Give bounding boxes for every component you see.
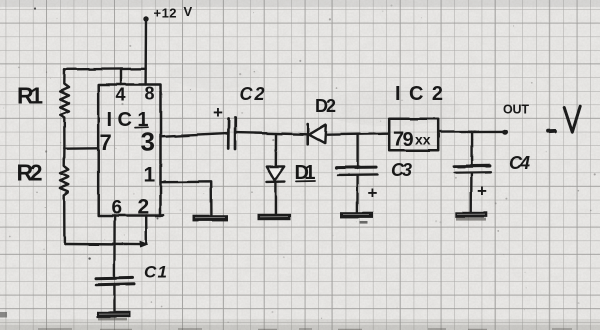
svg-text:+: + bbox=[213, 103, 223, 122]
svg-text:9: 9 bbox=[403, 129, 414, 151]
svg-text:4: 4 bbox=[116, 85, 126, 105]
svg-text:+: + bbox=[368, 184, 378, 203]
underline D1 bbox=[296, 180, 315, 182]
svg-text:3: 3 bbox=[141, 127, 155, 157]
IC1 box (555) bbox=[98, 85, 160, 216]
svg-text:R2: R2 bbox=[17, 160, 43, 186]
svg-text:2: 2 bbox=[138, 196, 150, 219]
svg-text:C4: C4 bbox=[509, 153, 530, 173]
gray scribble under C1 ground bbox=[98, 318, 127, 321]
wire pin 1 bbox=[161, 182, 212, 215]
wire C1 to ground bbox=[113, 285, 115, 311]
capacitor C3 bbox=[336, 166, 376, 170]
wire D2 to IC2 bbox=[327, 133, 390, 134]
wire pin 3 output bbox=[161, 134, 228, 137]
node +12V dot bbox=[143, 16, 148, 21]
wire C4 to ground bbox=[470, 173, 473, 212]
svg-text:+12: +12 bbox=[154, 6, 177, 21]
junction arrow mark pins 2/6 wire bbox=[140, 242, 148, 248]
wire bottom horizontal (R2 to pins 6,2) bbox=[64, 243, 141, 246]
svg-text:6: 6 bbox=[112, 198, 123, 219]
wire C2 to D2 bbox=[236, 133, 307, 135]
svg-text:8: 8 bbox=[145, 84, 155, 104]
paper shading top edge bbox=[0, 0, 600, 7]
scan edge dashes along bottom bbox=[38, 328, 572, 330]
label V of -V bbox=[564, 106, 580, 132]
wire C3 to ground bbox=[356, 176, 359, 212]
pen dot top-left bbox=[34, 7, 36, 9]
svg-text:+: + bbox=[477, 182, 487, 201]
wire pin 4 drop bbox=[120, 69, 122, 85]
diode D1 bbox=[267, 166, 284, 180]
resistor R1 bbox=[60, 69, 69, 148]
stray mark bottom-left corner bbox=[0, 312, 7, 318]
ground (below C1) bbox=[97, 311, 132, 317]
svg-text:D2: D2 bbox=[315, 96, 336, 116]
ground (below C3) bbox=[341, 212, 374, 218]
wire C4 drop bbox=[470, 132, 472, 165]
svg-text:xx: xx bbox=[415, 132, 431, 148]
ground (below D1) bbox=[258, 214, 291, 220]
paper smudge above C2 bbox=[170, 61, 260, 89]
ground (below C4) bbox=[455, 212, 488, 218]
ground texture scribbles bbox=[99, 214, 485, 314]
wire pin 7 bbox=[64, 147, 98, 150]
svg-text:C1: C1 bbox=[144, 263, 167, 282]
wire pin 2 drop bbox=[145, 216, 148, 244]
svg-text:C2: C2 bbox=[240, 84, 265, 104]
svg-text:R1: R1 bbox=[17, 83, 43, 109]
capacitor C4 bbox=[454, 164, 490, 168]
svg-text:1: 1 bbox=[144, 164, 156, 187]
ground (below pin 1) bbox=[193, 215, 229, 221]
capacitor C1 bbox=[97, 276, 134, 280]
pen dot left of C1 bbox=[88, 257, 90, 259]
wire top horizontal to R1 bbox=[65, 68, 146, 71]
svg-text:C3: C3 bbox=[391, 160, 412, 180]
IC1 bottom edge overshoot bbox=[161, 214, 165, 217]
wire D1 drop bbox=[275, 134, 278, 166]
wire IC2 out to OUT bbox=[438, 130, 504, 133]
minus sign of -V bbox=[548, 129, 556, 133]
paper shading bottom edge bbox=[0, 319, 600, 330]
capacitor C2 bbox=[227, 119, 230, 149]
pen dot right of pin2 bbox=[157, 218, 159, 220]
wire +12V vertical to pin 8 bbox=[144, 19, 147, 85]
diode D2 bbox=[306, 125, 309, 145]
resistor R2 bbox=[60, 149, 69, 244]
svg-text:OUT: OUT bbox=[503, 103, 529, 117]
wire C3 drop bbox=[356, 134, 358, 168]
IC2 box (79xx) bbox=[390, 119, 439, 151]
wire pin 6 drop bbox=[113, 216, 116, 278]
node OUT dot bbox=[503, 129, 508, 134]
wire D1 to ground bbox=[274, 182, 276, 214]
svg-text:V: V bbox=[184, 4, 193, 19]
stray mark below C3 ground bbox=[360, 221, 368, 224]
gray scribble under C4 ground bbox=[456, 218, 486, 221]
paper smudge near IC2 bbox=[320, 90, 460, 126]
svg-text:7: 7 bbox=[100, 130, 112, 155]
